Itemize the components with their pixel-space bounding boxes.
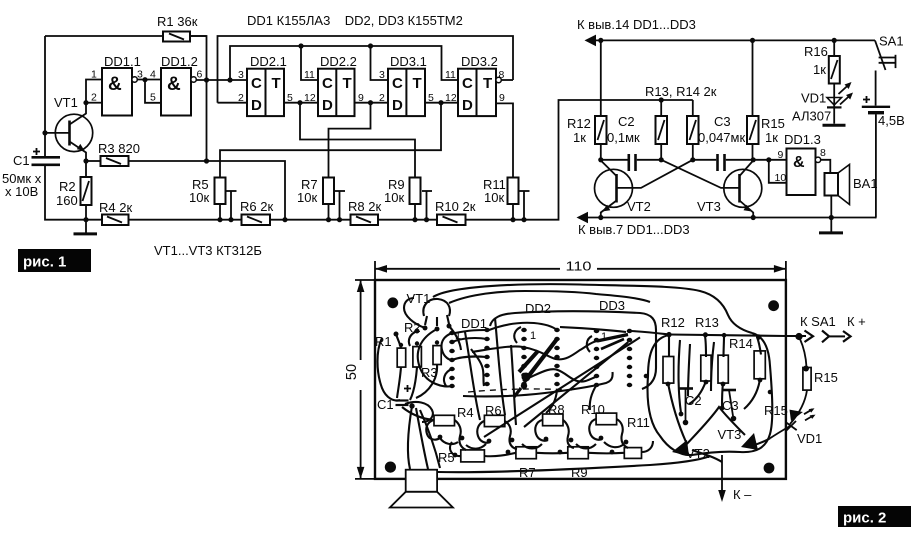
- junction dot DD1.3 input node: [766, 157, 771, 162]
- svg-text:50: 50: [344, 364, 360, 380]
- trace: VT3 to VD1: [752, 438, 770, 446]
- resistor R10: [435, 199, 476, 225]
- flipflop DD3.2: [445, 54, 505, 116]
- svg-text:R6 2к: R6 2к: [240, 199, 273, 214]
- svg-text:DD1.1: DD1.1: [104, 54, 141, 69]
- wire: DD3.2 pin8 to feedback bus: [501, 79, 513, 81]
- svg-text:6: 6: [197, 69, 203, 81]
- svg-text:12: 12: [304, 92, 316, 104]
- mounting hole bottom-left: [385, 462, 396, 473]
- svg-text:C: C: [251, 75, 262, 92]
- junction dot at (300,102.7): [297, 100, 302, 105]
- capacitor C1 on board: [396, 385, 412, 405]
- junction dot VT2 emitter: [598, 215, 603, 220]
- wire: +supply bus right with arrow to pin14: [585, 35, 876, 47]
- wire: VT2 base from cross-coupling: [617, 160, 693, 188]
- capacitor C1: [2, 148, 60, 199]
- svg-text:R1: R1: [375, 334, 392, 349]
- svg-text:К –: К –: [733, 487, 752, 502]
- wire: R14 node to C3: [693, 159, 716, 161]
- tap mark at R5: [227, 191, 237, 222]
- svg-text:DD1: DD1: [461, 316, 487, 331]
- trace: R2 top hook: [409, 331, 417, 346]
- svg-text:рис. 1: рис. 1: [23, 254, 66, 271]
- trace: DD2 inner c-hook: [514, 327, 521, 343]
- mounting hole top-right: [768, 300, 779, 311]
- speaker BA1: [825, 165, 878, 205]
- trace: DD2-DD3 bow: [560, 327, 626, 332]
- speaker (dynamic head) under board: [390, 470, 453, 508]
- trace: C1 to R4: [402, 407, 434, 420]
- flipflop DD2.1: [238, 54, 293, 116]
- svg-text:C2: C2: [618, 114, 635, 129]
- trace: R7-R9 link: [536, 452, 568, 455]
- resistor outline R3 on board: [433, 346, 441, 365]
- svg-text:К выв.14 DD1...DD3: К выв.14 DD1...DD3: [577, 17, 696, 32]
- svg-text:&: &: [793, 154, 805, 171]
- flipflop DD2.2: [304, 54, 364, 116]
- tap mark at R7: [335, 191, 345, 222]
- junction dot VT2 collector node: [598, 157, 603, 162]
- wire: R11 bottom to rail: [512, 204, 514, 220]
- junction dot clock bus x=370.5: [368, 43, 373, 48]
- wire: rail R8 to R10: [378, 219, 437, 221]
- ground under BA1: [819, 218, 843, 233]
- trace: DD1 wavy vertical: [471, 349, 484, 386]
- mounting hole top-left: [387, 297, 398, 308]
- wire: DD1.2 pin5 feed: [145, 80, 161, 103]
- wire: rail R6 to R8: [270, 219, 351, 221]
- svg-text:10к: 10к: [297, 190, 317, 205]
- wire: R2 top: [85, 161, 87, 177]
- svg-text:3: 3: [238, 69, 244, 81]
- trace: R9-R11 link: [588, 452, 624, 455]
- junction dot at (86,102.7): [83, 100, 88, 105]
- ladder feed line y=100 to R13,R14: [659, 97, 664, 102]
- trace: right block outer loop: [648, 333, 773, 455]
- svg-text:D: D: [322, 97, 333, 114]
- trace: C2 second vertical: [688, 344, 690, 396]
- svg-text:DD3.2: DD3.2: [461, 54, 498, 69]
- svg-text:R2: R2: [59, 179, 76, 194]
- trace: R11 link: [642, 441, 654, 452]
- VT3 pad arrow: [741, 433, 758, 450]
- svg-text:R12: R12: [661, 315, 685, 330]
- svg-text:R11: R11: [627, 415, 650, 430]
- resistor outline R11 on board: [624, 448, 641, 459]
- svg-text:R7: R7: [519, 465, 536, 480]
- svg-text:R15: R15: [814, 370, 838, 385]
- junction dot R14 bottom node: [690, 157, 695, 162]
- trace: scallop row between resistor rows: [440, 438, 624, 449]
- svg-text:10к: 10к: [189, 190, 209, 205]
- svg-text:4: 4: [150, 69, 156, 81]
- junction dot VT1 base on left vertical: [42, 130, 47, 135]
- gate DD1.1: [91, 54, 143, 116]
- wire: C1 bottom to bottom rail corner: [45, 165, 102, 220]
- svg-text:АЛ307: АЛ307: [792, 109, 831, 124]
- capacitor C3 on board: [722, 390, 736, 421]
- svg-text:5: 5: [150, 92, 156, 104]
- trace: DD3 to R12: [631, 331, 669, 335]
- svg-text:DD3.1: DD3.1: [390, 54, 427, 69]
- trace: R12 to K SA1 line: [669, 335, 786, 337]
- svg-text:DD1 К155ЛА3 DD2, DD3 К155ТМ: DD1 К155ЛА3 DD2, DD3 К155ТМ2: [247, 13, 463, 28]
- wire: VT1 collector to DD1.1 inputs vertical: [86, 80, 102, 103]
- svg-text:T: T: [272, 75, 281, 92]
- pads right block: [644, 332, 773, 417]
- junction dot at (441,102.7): [438, 100, 443, 105]
- junction dot at (86,161): [83, 158, 88, 163]
- resistor outline R15 outside board: [803, 368, 811, 391]
- resistor outline R14 on board: [718, 355, 728, 383]
- wire: R3 right to ladder node x=285: [129, 161, 286, 220]
- svg-text:C: C: [462, 75, 473, 92]
- wire: R5 bottom to rail: [219, 204, 221, 220]
- svg-text:BA1: BA1: [853, 176, 878, 191]
- resistor R13: [656, 100, 668, 160]
- svg-text:3: 3: [379, 69, 385, 81]
- svg-text:C3: C3: [714, 114, 731, 129]
- junction dot R13 bottom node: [659, 157, 664, 162]
- svg-text:1к: 1к: [765, 130, 778, 145]
- svg-text:VD1: VD1: [797, 431, 822, 446]
- tap mark at R9: [422, 191, 432, 222]
- svg-text:DD2: DD2: [525, 301, 551, 316]
- svg-text:R10 2к: R10 2к: [435, 199, 476, 214]
- svg-text:R15: R15: [761, 116, 785, 131]
- svg-text:1к: 1к: [573, 130, 586, 145]
- resistor R11: [483, 177, 519, 205]
- svg-text:10к: 10к: [484, 190, 504, 205]
- svg-text:11: 11: [304, 69, 315, 81]
- trace: DD1-DD2 bow: [489, 323, 557, 330]
- wire: rail R4 to R6: [129, 219, 242, 221]
- junction dot at (86,219.7): [83, 217, 88, 222]
- wire: clock drop to DD3.1 pin3: [371, 46, 389, 80]
- junction dot at (285,219.7): [282, 217, 287, 222]
- figure label ris.2: [838, 506, 911, 527]
- trace: R15 top stub: [757, 337, 761, 355]
- trace: R15 bottom hook: [744, 379, 760, 409]
- svg-text:R16: R16: [804, 44, 828, 59]
- wire: DD2.1 pin5 to DD2.2 pin12: [284, 102, 318, 104]
- trace: R12 top stub: [668, 336, 670, 357]
- svg-text:К +: К +: [847, 314, 866, 329]
- trace: nest loop near C1: [405, 402, 433, 422]
- trace: left column hooks DD1: [441, 333, 452, 386]
- trace: long diagonal 2: [524, 342, 628, 427]
- wire: VT1 emitter node to R3: [86, 160, 101, 162]
- svg-text:R12: R12: [567, 116, 591, 131]
- trace: R8 hooks: [535, 420, 574, 448]
- svg-text:11: 11: [445, 69, 456, 81]
- trace: second top curve to DD2: [449, 291, 650, 303]
- svg-text:VT2: VT2: [627, 199, 651, 214]
- capacitor C3: [698, 114, 745, 171]
- trace: long S from VT1 pads down to DD1: [418, 329, 452, 386]
- ground under R2: [74, 220, 98, 234]
- resistor outline R1 on board: [397, 348, 406, 367]
- resistor R16: [804, 40, 840, 83]
- wire: BA1 bottom to ground rail: [830, 196, 832, 218]
- svg-text:х 10В: х 10В: [5, 184, 38, 199]
- trace: VT1 to DD1 hook: [449, 326, 461, 350]
- wire: DD3.2 pin9 down to R11: [496, 103, 513, 177]
- wire: DD2.2 pin9 drop to R7: [329, 103, 371, 178]
- wire: DD1.1 out to DD1.2 pins: [137, 79, 161, 81]
- transistor VT1: [45, 95, 93, 161]
- svg-text:D: D: [462, 97, 473, 114]
- resistor outline R8 on board: [543, 414, 563, 426]
- svg-text:DD1.3: DD1.3: [784, 132, 821, 147]
- wire: R1 right to vertical x=206.5 down to R3 node: [190, 36, 207, 161]
- DIP pads DD3: [594, 329, 633, 387]
- svg-text:1к: 1к: [813, 62, 826, 77]
- trace: DD1-DD2 upper link: [452, 338, 487, 342]
- trace: DD3 right col bottom drop: [590, 385, 597, 410]
- battery GB1 4.5V: [862, 71, 905, 218]
- trace: R4 hooks: [426, 420, 466, 450]
- trace: R13 bottom to C2: [689, 381, 706, 404]
- wire: DD1.1 pin2 from junction: [86, 102, 102, 104]
- dimension 50 left: [344, 280, 375, 479]
- capacitor C2 on board: [679, 389, 693, 426]
- wire: VT3 base from cross-coupling: [661, 160, 739, 188]
- figure label ris.1: [18, 249, 91, 272]
- wire: DD2.2 pin9 to DD3.1 pin2: [355, 102, 389, 104]
- junction dot R16 top: [832, 38, 837, 43]
- trace: thick X center: [514, 335, 628, 398]
- svg-text:VT1: VT1: [54, 95, 78, 110]
- connection arrow K SA1: [786, 314, 836, 342]
- mounting hole bottom-right: [764, 463, 775, 474]
- resistor outline R4 on board: [434, 415, 455, 425]
- wire: C3 to VT3 collector node: [726, 159, 787, 161]
- trace: DD2 pin1 drop to R8: [511, 345, 516, 425]
- resistor R7: [297, 177, 334, 205]
- svg-text:8: 8: [820, 147, 826, 159]
- svg-text:C: C: [322, 75, 333, 92]
- resistor outline R10 on board: [596, 413, 617, 425]
- trace: R14 top stub: [722, 336, 725, 357]
- resistor R3: [98, 141, 140, 166]
- svg-text:0,1мк: 0,1мк: [607, 130, 640, 145]
- resistor outline R15 on board: [754, 351, 765, 379]
- dimension 110 top: [375, 259, 786, 281]
- resistor outline R7 on board: [516, 447, 536, 459]
- svg-text:К выв.7 DD1...DD3: К выв.7 DD1...DD3: [578, 222, 690, 237]
- svg-text:VD1: VD1: [801, 91, 826, 106]
- svg-text:1: 1: [91, 69, 97, 81]
- R15 outer chain: [790, 339, 809, 424]
- svg-text:R14: R14: [729, 336, 753, 351]
- wire: DD2.1 pin5 drop to R9: [300, 103, 415, 178]
- resistor R8: [348, 199, 381, 225]
- svg-text:D: D: [251, 97, 262, 114]
- svg-text:&: &: [167, 74, 181, 95]
- trace: loop around DD2/DD3 top: [490, 311, 656, 389]
- svg-text:C1: C1: [13, 153, 30, 168]
- resistor R5: [189, 177, 226, 205]
- pads middle row: [438, 435, 629, 458]
- transistor VT2: [595, 161, 651, 218]
- svg-text:R9: R9: [571, 465, 588, 480]
- DIP pads DD2: [521, 328, 560, 386]
- svg-text:VT3: VT3: [718, 427, 742, 442]
- trace: R5 left hook: [450, 442, 461, 456]
- wire: ground bus bottom with arrow to pin7: [577, 212, 877, 224]
- svg-text:0,047мк: 0,047мк: [698, 130, 745, 145]
- trace: C2 vertical: [679, 340, 681, 413]
- wire: rail R10 to riser x=558.5: [466, 100, 693, 220]
- svg-text:12: 12: [445, 92, 457, 104]
- svg-text:DD2.2: DD2.2: [320, 54, 357, 69]
- svg-text:R8 2к: R8 2к: [348, 199, 381, 214]
- LED VD1 outside: [770, 408, 816, 438]
- resistor R9: [384, 177, 421, 205]
- capacitor C2: [607, 114, 640, 171]
- trace: R6 hooks: [477, 421, 517, 449]
- VT2 pad arrow: [672, 440, 689, 456]
- resistor R2: [56, 177, 92, 208]
- svg-text:R3 820: R3 820: [98, 141, 140, 156]
- PCB board outline: [375, 280, 786, 479]
- flipflop DD3.1: [379, 54, 434, 116]
- wire: clock drop to DD2.2 pin11: [301, 46, 318, 80]
- svg-text:T: T: [343, 75, 352, 92]
- junction dot R15 top: [750, 38, 755, 43]
- trace: low long curve: [463, 372, 613, 396]
- resistor R12: [567, 40, 607, 159]
- svg-text:2: 2: [379, 92, 385, 104]
- ground under VD1: [823, 124, 846, 127]
- trace: VT1 transistor outline: [423, 299, 452, 332]
- svg-text:9: 9: [778, 149, 784, 161]
- junction dot at (370.5,102.7): [368, 100, 373, 105]
- svg-text:DD2.1: DD2.1: [250, 54, 287, 69]
- junction dot at (145,79.7): [142, 77, 147, 82]
- wire: feedback bus y=36 from x=217.5 to DD3.2 pin8 drop: [218, 36, 514, 103]
- trace: wavy cross link upper: [472, 341, 597, 359]
- svg-text:VT3: VT3: [697, 199, 721, 214]
- wire: R7 bottom to rail: [328, 204, 330, 220]
- resistor outline R12 on board: [663, 357, 674, 384]
- junction dot VT3 collector node: [751, 157, 756, 162]
- trace: dashed jumper: [468, 389, 572, 392]
- tap mark at R11: [520, 191, 530, 222]
- wire: C2 to R13 node: [637, 159, 661, 161]
- transistor VT3: [697, 161, 762, 218]
- svg-text:2: 2: [91, 92, 97, 104]
- svg-text:9: 9: [499, 92, 505, 104]
- trace: bottom long sweep: [438, 456, 710, 472]
- wire: left vertical from bus to C1: [44, 36, 46, 157]
- svg-text:VT1...VT3 КТ312Б: VT1...VT3 КТ312Б: [154, 243, 262, 258]
- trace: C3 vertical: [711, 342, 714, 391]
- trace: DD2 left drop: [495, 318, 505, 415]
- trace: left edge loop around R1: [378, 338, 401, 401]
- wire: feedback to DD2.1 pin2: [218, 102, 248, 104]
- svg-text:R13, R14 2к: R13, R14 2к: [645, 84, 717, 99]
- trace: DD1-DD2 mid link: [452, 356, 487, 360]
- trace: wavy cross link lower: [527, 369, 597, 381]
- wire: DD3.1 pin5 to DD3.2 pin12: [425, 102, 458, 104]
- svg-text:160: 160: [56, 193, 78, 208]
- trace: R14 bottom to C3: [722, 383, 723, 407]
- pad at C1: [409, 403, 414, 408]
- gate DD1.2: [150, 54, 203, 116]
- trace: DD1 left drop: [465, 332, 480, 420]
- trace: VT1 loop left: [404, 298, 425, 328]
- junction dot at (206.5,80): [204, 77, 209, 82]
- resistor outline R9 on board: [568, 447, 589, 459]
- resistor outline R2 on board: [413, 347, 422, 367]
- svg-text:T: T: [413, 75, 422, 92]
- svg-text:К SA1: К SA1: [800, 314, 836, 329]
- svg-text:C: C: [392, 75, 403, 92]
- trace: R12 bottom to VT2: [668, 383, 686, 442]
- trace: DD2 right col to lower: [546, 390, 557, 413]
- trace: R1/R2/R3 bottoms to C1: [397, 365, 437, 401]
- junction dot R12 top: [598, 38, 603, 43]
- svg-text:D: D: [392, 97, 403, 114]
- resistor outline R13 on board: [701, 355, 711, 381]
- resistor R15: [747, 40, 785, 159]
- junction dot BA1 ground: [829, 215, 834, 220]
- trace: lambda between VT2 and VT3: [684, 407, 745, 447]
- svg-text:1: 1: [530, 330, 536, 342]
- junction dot VT3 emitter: [751, 215, 756, 220]
- svg-text:T: T: [483, 75, 492, 92]
- svg-text:110: 110: [566, 259, 592, 274]
- wire: DD1.3 pin10 tie: [769, 160, 787, 183]
- wire: VT2 collector node to C2: [601, 159, 628, 161]
- wire: R2 bottom to rail: [85, 205, 87, 220]
- DIP pads DD1: [449, 328, 490, 388]
- trace: R13 top stub: [705, 336, 706, 357]
- svg-text:R4 2к: R4 2к: [99, 200, 132, 215]
- junction dot at (206.5,161): [204, 158, 209, 163]
- connection arrow K - bottom: [718, 455, 752, 502]
- svg-text:10к: 10к: [384, 190, 404, 205]
- svg-text:R13: R13: [695, 315, 719, 330]
- trace: long diagonal 1: [484, 337, 640, 437]
- svg-text:SA1: SA1: [879, 34, 904, 49]
- svg-text:2: 2: [238, 92, 244, 104]
- resistor R4: [99, 200, 132, 225]
- svg-text:R1 36к: R1 36к: [157, 14, 198, 29]
- resistor R14: [687, 100, 699, 160]
- trace: R5-R7 link: [484, 453, 516, 456]
- wire: DD3.1 pin5 drop to R5: [220, 103, 441, 178]
- svg-text:рис. 2: рис. 2: [843, 510, 886, 527]
- wire: top supply bus left: [45, 35, 207, 37]
- wire: DD1.3 output to BA1: [821, 160, 831, 173]
- trace: DD1 to DD2 top link: [455, 330, 487, 333]
- wire: clock bus y=46: [230, 46, 458, 80]
- svg-text:4,5В: 4,5В: [878, 113, 905, 128]
- trace: R1 top link: [396, 334, 401, 348]
- gate DD1.3: [775, 132, 827, 195]
- resistor R1: [157, 14, 198, 42]
- wire: DD1.2 out pin6 to DD2.1 pin3: [196, 79, 247, 81]
- junction dot at (230,80): [227, 77, 232, 82]
- wire: R9 bottom to rail: [414, 204, 416, 220]
- trace: DD3 c-hook: [587, 336, 592, 352]
- resistor R6: [240, 199, 273, 225]
- trace: drops to speaker: [408, 406, 412, 469]
